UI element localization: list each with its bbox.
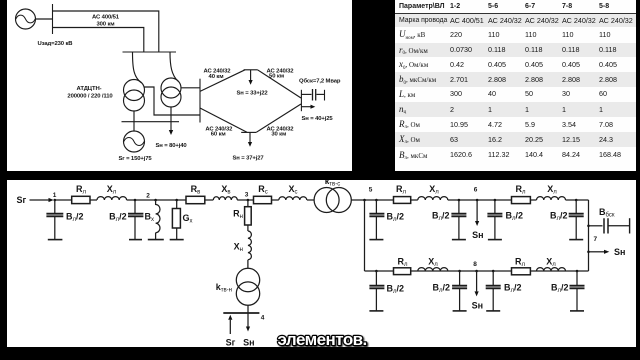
svg-text:Qбск=7,2 Мвар: Qбск=7,2 Мвар	[299, 78, 341, 85]
inductor Xl section 5-6	[418, 197, 448, 200]
svg-text:Xл: Xл	[429, 184, 439, 196]
svg-text:Xс: Xс	[288, 184, 297, 196]
svg-text:8: 8	[473, 261, 477, 268]
svg-text:3: 3	[245, 192, 249, 199]
resistor Rl section 6-7	[512, 197, 531, 204]
transformer k_tv-s	[314, 188, 339, 213]
svg-text:Sн: Sн	[614, 247, 625, 257]
resistor Rc	[254, 196, 272, 203]
capacitor Bl/2 at node 1	[54, 200, 56, 213]
svg-text:Sн = 37+j27: Sн = 37+j27	[232, 156, 264, 162]
bus 5	[199, 79, 201, 123]
inductor Xl section 8-7	[537, 268, 566, 271]
bus 3 bar	[122, 121, 180, 123]
svg-text:Sг: Sг	[226, 338, 236, 348]
table header row	[395, 0, 636, 13]
line 8-7 diagonal	[256, 104, 301, 132]
inductor Xc	[279, 197, 307, 200]
svg-text:Xн: Xн	[234, 242, 243, 254]
load arrow node 6	[250, 70, 252, 80]
row r0	[395, 43, 636, 58]
top-right parameter table panel	[395, 0, 636, 171]
node 7 load arrow	[587, 251, 590, 254]
row R_l	[395, 117, 636, 132]
capacitor Bl/2 lower at node 5	[375, 270, 378, 273]
svg-text:Rл: Rл	[76, 184, 87, 196]
node 8 bar	[241, 131, 256, 133]
autotransformer AT1	[124, 80, 145, 101]
capacitor Bl/2 before node 6	[458, 199, 461, 202]
svg-text:Bл/2: Bл/2	[387, 284, 405, 296]
svg-text:АС 400/51: АС 400/51	[92, 15, 120, 21]
node 6 bar	[244, 69, 258, 71]
line 5-8 diagonal	[200, 108, 247, 132]
wire to right corner	[566, 199, 589, 201]
capacitor Bl/2 at node 2	[134, 200, 136, 213]
svg-text:Rн: Rн	[233, 209, 243, 221]
svg-text:Bл/2: Bл/2	[109, 212, 127, 224]
wire AT2 to bus 5	[181, 87, 200, 89]
bottom equivalent circuit panel	[7, 180, 636, 347]
svg-text:Sн = 33+j22: Sн = 33+j22	[236, 90, 268, 96]
wire AT1 bottom to bar	[133, 111, 135, 122]
svg-text:ктв-с: ктв-с	[325, 180, 340, 188]
wire	[530, 199, 536, 201]
right vertical wire node 7	[588, 200, 590, 271]
line 5-6 diagonal	[200, 70, 245, 92]
svg-text:60 км: 60 км	[211, 131, 226, 137]
transformer k_tv-n	[236, 268, 259, 291]
wire	[272, 199, 279, 201]
node 3	[247, 199, 250, 202]
svg-text:6: 6	[474, 187, 478, 194]
svg-text:Xв: Xв	[221, 184, 230, 196]
svg-text:Rв: Rв	[191, 184, 201, 196]
capacitor Bl/2 after node 6	[494, 199, 497, 202]
row x0	[395, 57, 636, 72]
load arrow Sn down	[247, 313, 249, 327]
svg-text:Sг: Sг	[17, 195, 27, 205]
inductor Xn	[247, 225, 249, 231]
inductor Xl section 5-8	[418, 268, 448, 271]
row b0	[395, 72, 636, 87]
svg-text:элементов.: элементов.	[278, 330, 367, 347]
svg-text:2: 2	[146, 193, 150, 200]
wire through node 6	[448, 199, 512, 201]
svg-text:Rл: Rл	[515, 256, 526, 268]
svg-text:5: 5	[369, 187, 373, 194]
svg-text:Bл/2: Bл/2	[66, 212, 84, 224]
svg-text:Bл/2: Bл/2	[387, 212, 405, 224]
arrow into node 1	[30, 199, 49, 201]
svg-text:Sн: Sн	[472, 301, 483, 311]
wire transformer to node 5	[351, 199, 393, 201]
svg-text:Xл: Xл	[107, 184, 117, 196]
generator G1	[16, 9, 36, 29]
node 7 capacitor bank Bbsk	[587, 225, 590, 228]
node 2 junction dots	[134, 199, 137, 202]
load arrow at AT2	[170, 107, 172, 130]
capacitor Bl/2 upper at node 5	[375, 200, 377, 213]
svg-text:30 км: 30 км	[271, 131, 286, 137]
svg-text:Bл/2: Bл/2	[432, 211, 450, 223]
row n_c	[395, 102, 636, 117]
row X_l	[395, 132, 636, 147]
bus 1	[52, 4, 54, 34]
wire to transformer	[307, 199, 314, 201]
svg-text:Gх: Gх	[183, 213, 193, 225]
drop curve to AT2	[170, 52, 178, 81]
wire	[411, 199, 418, 201]
svg-text:Rл: Rл	[396, 184, 407, 196]
row L	[395, 87, 636, 102]
wire AT1 to bus 5 (L shape)	[144, 87, 199, 115]
svg-text:300 км: 300 км	[96, 22, 114, 28]
capacitor Bl/2 before node 8	[458, 270, 461, 273]
wire	[90, 199, 97, 201]
svg-text:Bх: Bх	[145, 212, 155, 224]
svg-text:Rл: Rл	[515, 184, 526, 196]
svg-text:Bл/2: Bл/2	[432, 283, 450, 295]
resistor Rl section 5-6	[394, 197, 411, 204]
drop curve to AT1	[133, 52, 142, 83]
svg-text:Sн: Sн	[472, 230, 483, 240]
svg-text:kтв-н: kтв-н	[216, 282, 232, 294]
lower branch wire 5-8-7	[365, 270, 589, 272]
wire through node 3	[237, 199, 253, 201]
row B_l	[395, 147, 636, 163]
inductor Xl section 6-7	[537, 197, 566, 200]
vertical wire node5 to lower branch	[364, 200, 366, 271]
load arrow node 8	[249, 132, 251, 142]
node 5 dots	[363, 199, 366, 202]
inductor Xv	[213, 197, 237, 200]
wire	[205, 199, 214, 201]
svg-text:Rл: Rл	[397, 256, 408, 268]
wire transformer to bus 4	[247, 305, 249, 313]
line 1-2 circuit B	[53, 28, 144, 53]
svg-text:Uзад=230 кВ: Uзад=230 кВ	[38, 41, 73, 47]
row marka provoda	[395, 14, 636, 27]
resistor Rv	[186, 196, 205, 203]
generator Sg	[124, 131, 145, 152]
svg-text:Bл/2: Bл/2	[551, 283, 569, 295]
svg-text:50 км: 50 км	[269, 74, 284, 80]
svg-text:4: 4	[261, 315, 265, 322]
capacitor Bl/2 before node 7 lower	[576, 270, 579, 273]
inductor Xl section 1-2	[97, 197, 127, 200]
svg-text:Bл/2: Bл/2	[506, 211, 524, 223]
svg-text:Sн = 80+j40: Sн = 80+j40	[155, 143, 187, 149]
svg-text:Xл: Xл	[547, 184, 557, 196]
svg-text:Bл/2: Bл/2	[504, 283, 522, 295]
autotransformer AT2	[161, 78, 181, 98]
line 1-2 circuit A	[53, 11, 159, 52]
resistor Rl section 8-7	[512, 268, 531, 275]
resistor Rl section 5-8	[394, 268, 411, 275]
wire bar to generator Sg	[133, 122, 135, 131]
resistor Rl section 1-2	[72, 196, 90, 203]
top-left one-line power system diagram panel	[7, 0, 352, 171]
wire through node 2	[127, 199, 186, 201]
svg-text:АТДЦТН-: АТДЦТН-	[77, 86, 102, 92]
wire to transformer k_tv-n	[247, 260, 249, 269]
capacitor Bl/2 after node 8	[492, 270, 495, 273]
wire node1 to Rl	[55, 199, 72, 201]
source arrow Sg up	[229, 320, 231, 334]
svg-text:200000 / 220 /110: 200000 / 220 /110	[67, 94, 113, 100]
svg-text:1: 1	[53, 192, 57, 199]
svg-text:Bбск: Bбск	[599, 207, 615, 219]
header rule	[395, 13, 636, 14]
capacitor Bl/2 before node 7 upper	[575, 199, 578, 202]
node 8 load	[475, 270, 478, 273]
svg-text:Sг = 150+j75: Sг = 150+j75	[118, 156, 152, 162]
line 6-7 diagonal	[258, 70, 302, 98]
svg-text:Sн = 40+j25: Sн = 40+j25	[302, 116, 334, 122]
svg-text:Xл: Xл	[428, 256, 438, 268]
svg-text:40 км: 40 км	[209, 74, 224, 80]
row U nom	[395, 27, 636, 43]
svg-text:Bл/2: Bл/2	[550, 211, 568, 223]
node 3 shunt: resistor Rn	[247, 200, 249, 207]
wire G1 to bus 1	[36, 18, 53, 20]
svg-text:Sн: Sн	[243, 338, 254, 348]
node 6 load	[476, 199, 479, 202]
bus 7	[300, 90, 302, 111]
svg-text:Rс: Rс	[258, 184, 268, 196]
capacitor bank QBSK branch	[301, 93, 311, 95]
svg-text:7: 7	[594, 236, 598, 243]
bus 2	[123, 51, 177, 53]
shunt inductor Bx	[155, 200, 157, 205]
bus 4 bar	[223, 312, 259, 314]
node 1	[54, 199, 57, 202]
svg-text:Xл: Xл	[546, 256, 556, 268]
load arrow node 7	[301, 106, 310, 108]
shunt conductance Gx	[176, 200, 178, 209]
